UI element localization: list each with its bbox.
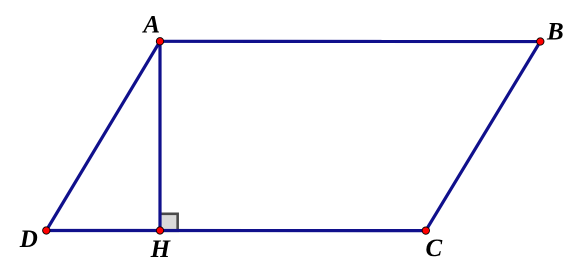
node A bbox=[156, 38, 163, 45]
wire side AD bbox=[46, 41, 160, 230]
node D bbox=[43, 227, 50, 234]
svg-text:D: D bbox=[19, 226, 38, 253]
svg-text:H: H bbox=[150, 236, 172, 263]
svg-text:B: B bbox=[546, 19, 564, 46]
wire side AB bbox=[160, 40, 540, 43]
node B bbox=[537, 38, 544, 45]
svg-text:A: A bbox=[141, 12, 160, 39]
node C bbox=[422, 227, 429, 234]
right angle marker at H bbox=[160, 214, 178, 231]
wire side DC bbox=[46, 229, 426, 232]
svg-text:C: C bbox=[426, 235, 443, 262]
wire altitude AH bbox=[158, 41, 161, 230]
wire side BC bbox=[426, 42, 541, 231]
node H bbox=[156, 227, 163, 234]
